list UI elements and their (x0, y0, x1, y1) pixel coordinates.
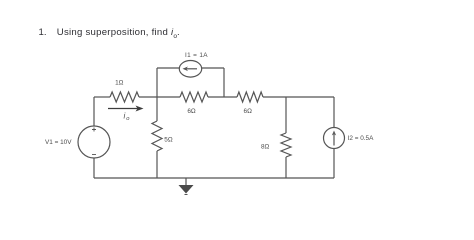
resistor R2 6ohm (180, 92, 208, 102)
wire top rail right segment (263, 96, 334, 98)
current source I2 (324, 128, 345, 149)
ground (185, 178, 187, 185)
minus sign of V1 (92, 154, 96, 156)
svg-text:i: i (124, 112, 126, 121)
svg-text:8Ω: 8Ω (261, 144, 270, 151)
wire current source loop top right (202, 67, 225, 69)
wire top rail left segment (94, 96, 110, 98)
voltage source V1 (78, 126, 110, 158)
resistor R4 5ohm (152, 121, 162, 151)
svg-text:6Ω: 6Ω (187, 108, 196, 115)
resistor R1 1ohm (110, 92, 139, 102)
wire 8ohm branch upper (285, 97, 287, 133)
svg-text:V1 = 10V: V1 = 10V (45, 139, 72, 146)
resistor R3 6ohm (237, 92, 263, 102)
current source I1 (179, 61, 201, 78)
svg-text:o: o (126, 116, 130, 122)
wire current source loop right vertical (223, 68, 225, 97)
wire right branch lower (333, 149, 335, 179)
wire 5ohm branch lower (156, 151, 158, 178)
plus sign of V1 (92, 128, 96, 132)
wire top rail between resistors (208, 96, 237, 98)
svg-text:I1 = 1A: I1 = 1A (185, 52, 208, 59)
wire left branch upper (93, 97, 95, 126)
problem statement text (39, 28, 180, 40)
svg-text:I2 = 0.5A: I2 = 0.5A (348, 135, 374, 142)
wire 5ohm branch upper (156, 97, 158, 121)
svg-text:6Ω: 6Ω (244, 108, 253, 115)
wire right branch upper (333, 97, 335, 128)
wire top rail between R1 and node A (139, 96, 180, 98)
arrow of I2 pointing up (333, 134, 335, 146)
wire current source loop top left (157, 67, 180, 69)
wire left branch lower (93, 158, 95, 178)
arrow of I1 pointing left (186, 68, 197, 70)
svg-text:1Ω: 1Ω (115, 80, 124, 87)
resistor R5 8ohm (281, 133, 291, 157)
wire 8ohm branch lower (285, 157, 287, 178)
wire current source loop left vertical (156, 68, 158, 97)
wire bottom rail (94, 177, 334, 179)
current arrow io (108, 108, 138, 110)
svg-text:5Ω: 5Ω (164, 136, 173, 143)
